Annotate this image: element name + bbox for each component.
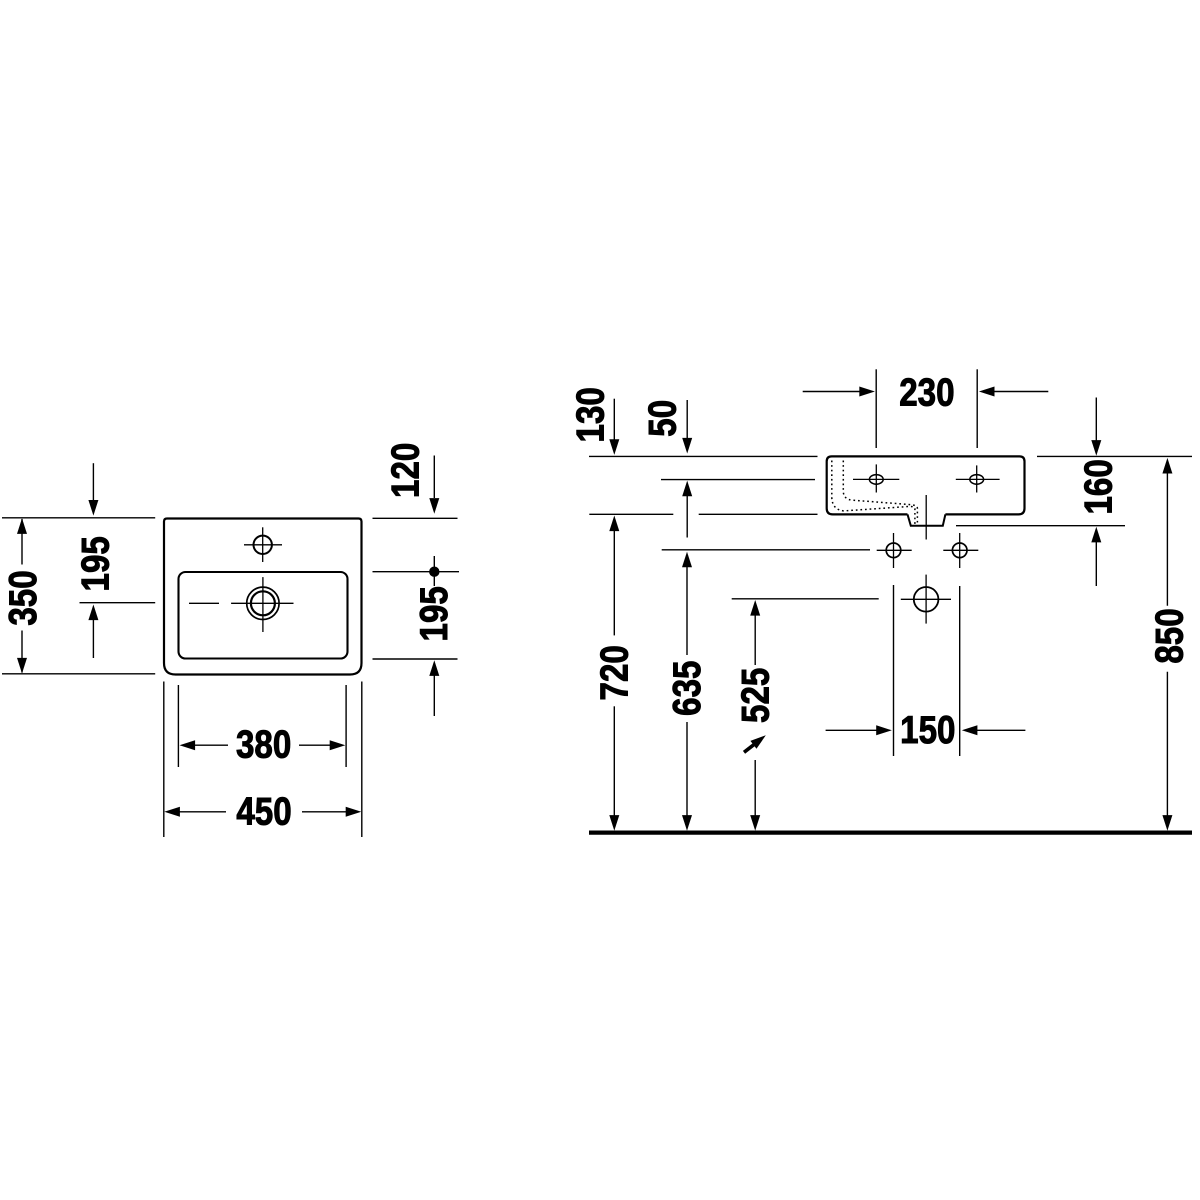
svg-text:350: 350 <box>0 570 44 625</box>
wall/rim level line (right part) <box>1037 455 1192 457</box>
bowl rim level line <box>661 479 815 481</box>
extension line bowl top edge with reference dot (right) <box>373 571 460 573</box>
dimension 850 line with arrows <box>1162 458 1172 474</box>
dimension 160 lower arrow <box>1091 527 1101 543</box>
extension line 230 left <box>875 369 877 448</box>
dimension 195 left: lower arrow <box>88 605 98 621</box>
upper fixing hole left (side) <box>869 475 883 485</box>
svg-text:720: 720 <box>592 645 636 700</box>
washbasin plan view: extension line at basin bottom edge (left) <box>2 673 155 675</box>
drain outlet level line <box>732 598 879 600</box>
washbasin plan view: extension line at drain centre (left) <box>80 602 156 604</box>
basin outer outline (plan) <box>164 519 362 675</box>
floor line <box>589 830 1192 834</box>
extension line 150 right <box>959 586 961 756</box>
dimension 160 upper arrow <box>1095 398 1097 442</box>
dimension 350 line <box>21 519 23 565</box>
drain crosshair <box>231 602 293 604</box>
dimension 230 <box>803 391 860 393</box>
lower fixing hole right (side) <box>952 543 967 558</box>
extension line 230 right <box>976 369 978 448</box>
basin bowl hidden contour (dotted, outer) <box>832 461 915 525</box>
dimension 450 <box>164 807 180 817</box>
upper fixing hole left crosshair <box>853 478 899 480</box>
svg-text:450: 450 <box>236 789 291 833</box>
dimension 720 line with arrows <box>609 516 619 532</box>
basin side profile outline <box>827 456 1025 514</box>
upper fixing hole right (side) <box>970 475 984 485</box>
wall/rim level line (left part) <box>589 455 818 457</box>
basin underside level line <box>589 513 673 515</box>
extension line bowl bottom edge (right) <box>373 658 458 660</box>
drain (plan) <box>247 587 279 619</box>
svg-text:850: 850 <box>1147 608 1191 663</box>
extension line 380 right <box>345 685 347 767</box>
svg-text:380: 380 <box>236 722 291 766</box>
dimension 525 upper arrow <box>750 600 760 616</box>
extension line 150 left <box>893 585 895 756</box>
faucet hole (plan) <box>254 536 272 554</box>
svg-text:150: 150 <box>900 708 955 752</box>
trap bottom level line (right) <box>956 525 1125 527</box>
dimension 130 upper arrow <box>613 399 615 440</box>
drain trap outline (side) <box>908 514 946 525</box>
svg-text:195: 195 <box>73 536 117 591</box>
lower fixing hole left (side) <box>886 543 901 558</box>
dimension 195 left: upper arrow <box>92 463 94 500</box>
dimension 380 <box>180 740 196 750</box>
extension line 450 left <box>163 682 165 838</box>
drain outlet crosshair <box>901 598 951 600</box>
drain outlet circle (side) <box>914 587 939 612</box>
svg-text:230: 230 <box>899 370 954 414</box>
dimension 120 arrow <box>433 456 435 499</box>
extension line basin top edge (right) <box>373 517 458 519</box>
basin bowl hidden contour (dotted, inner) <box>843 461 917 525</box>
faucet hole crosshair <box>244 544 282 546</box>
svg-text:525: 525 <box>733 668 777 723</box>
extension line 450 right <box>361 682 363 838</box>
svg-text:130: 130 <box>568 387 612 442</box>
lower fixing hole right crosshair <box>943 549 978 551</box>
dimension 525 lower line with arrow <box>754 760 756 816</box>
svg-text:195: 195 <box>411 586 455 641</box>
drain trap centreline <box>925 495 927 540</box>
dimension 50 upper arrow <box>686 400 688 439</box>
lower fixing holes level line <box>662 549 870 551</box>
basin inner bowl outline (plan) <box>179 572 348 659</box>
dimension 50 lower arrow <box>682 481 692 497</box>
washbasin plan view: extension line at basin top edge (left) <box>2 517 155 519</box>
extension line 380 left <box>177 685 179 767</box>
dimension 195 right arrow <box>429 660 439 676</box>
dimension 525 diagonal arrow <box>744 742 758 753</box>
upper fixing hole right crosshair <box>956 478 1000 480</box>
dimension 150 <box>826 729 877 731</box>
bowl centreline dash (plan) <box>189 602 219 604</box>
svg-text:50: 50 <box>640 400 684 437</box>
svg-text:120: 120 <box>383 443 427 498</box>
dimension 635 line with arrows <box>682 552 692 568</box>
svg-text:160: 160 <box>1076 459 1120 514</box>
svg-text:635: 635 <box>665 661 709 716</box>
lower fixing hole left crosshair <box>877 549 912 551</box>
